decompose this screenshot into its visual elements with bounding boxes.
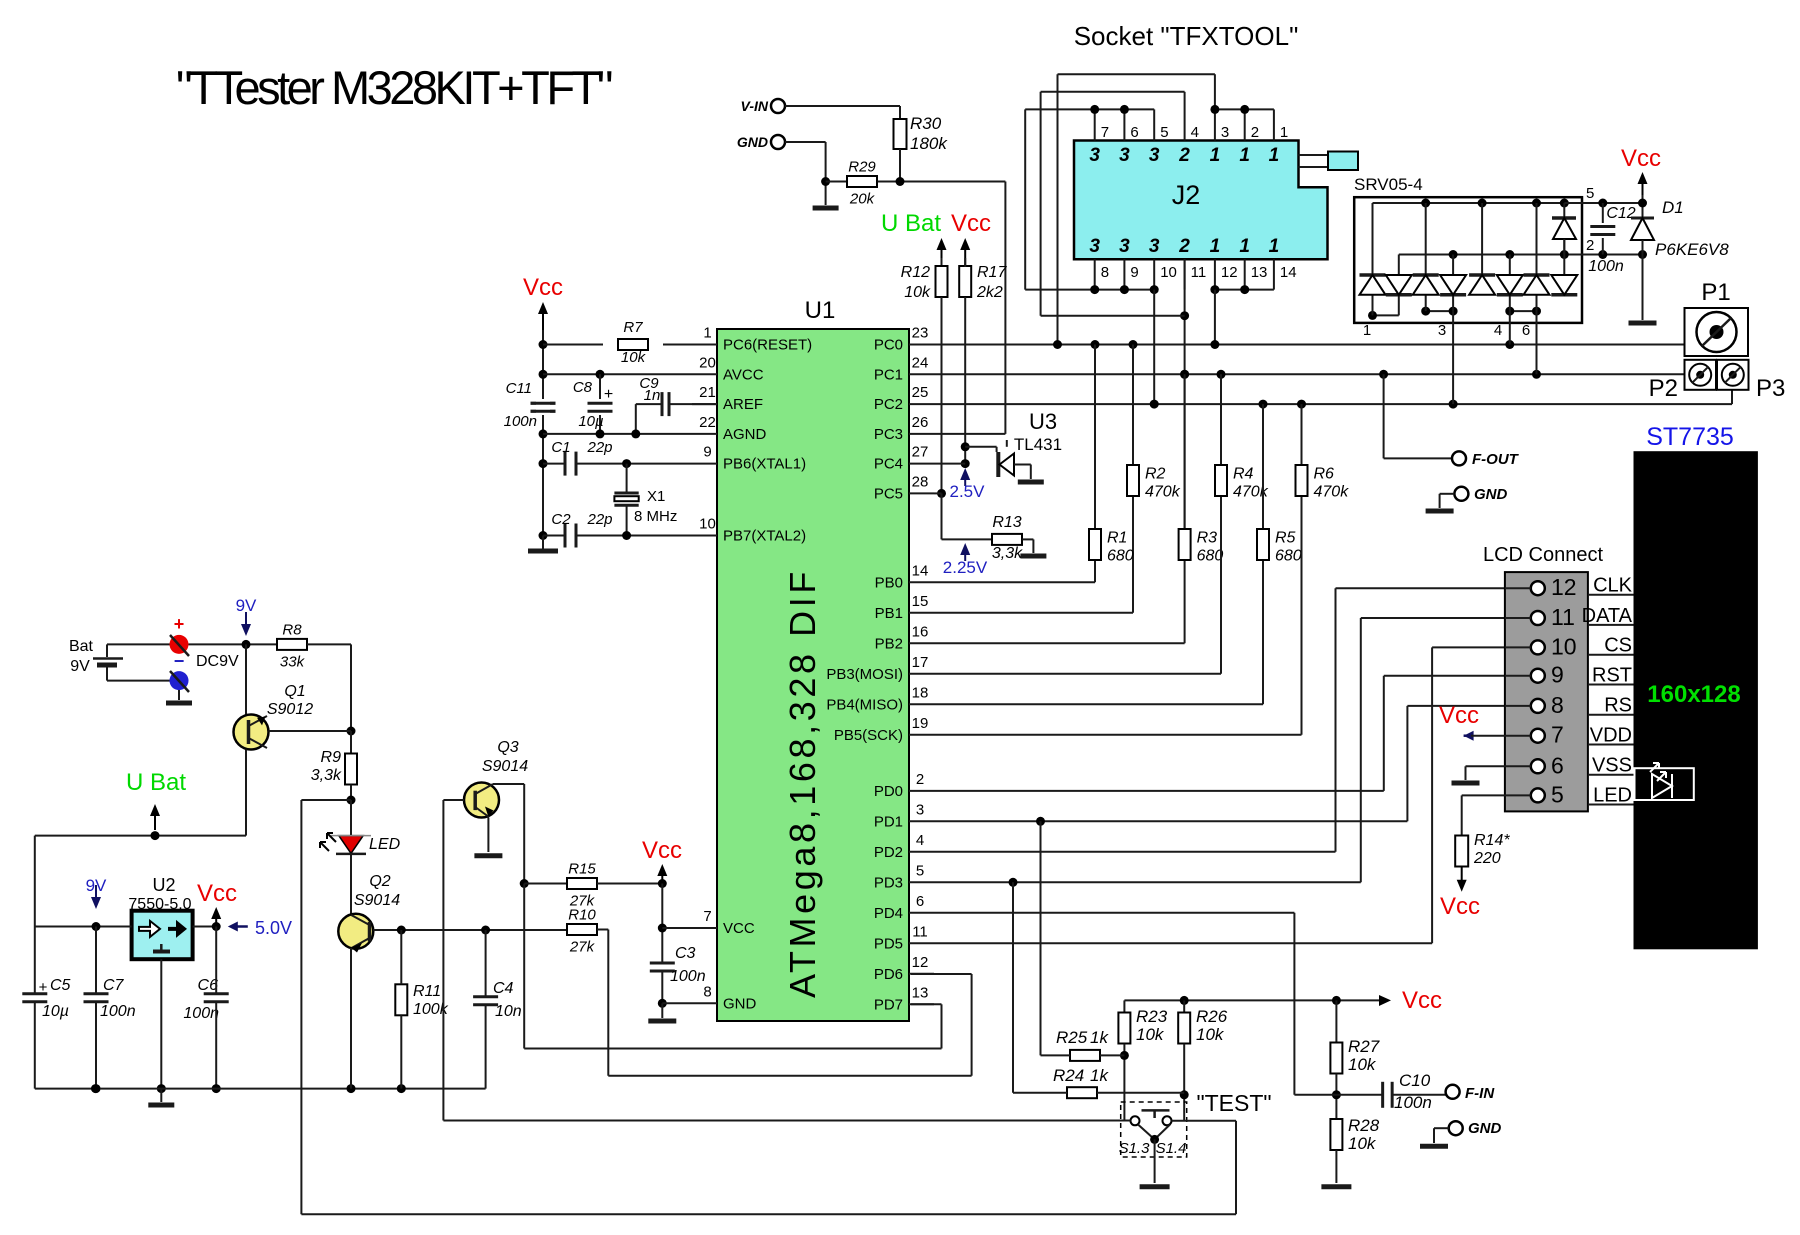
svg-text:P6KE6V8: P6KE6V8	[1655, 240, 1729, 259]
svg-text:PB2: PB2	[875, 635, 903, 652]
svg-text:5: 5	[1160, 124, 1168, 141]
svg-text:TL431: TL431	[1014, 435, 1062, 454]
svg-text:12: 12	[912, 954, 929, 971]
svg-text:GND: GND	[1474, 486, 1508, 503]
svg-text:16: 16	[912, 623, 929, 640]
svg-text:2: 2	[1251, 124, 1259, 141]
svg-text:9: 9	[703, 444, 711, 461]
svg-text:22: 22	[699, 414, 716, 431]
svg-text:AVCC: AVCC	[723, 366, 764, 383]
svg-text:18: 18	[912, 684, 929, 701]
svg-text:ATMega8,168,328 DIF: ATMega8,168,328 DIF	[782, 568, 823, 998]
svg-text:Vcc: Vcc	[197, 880, 237, 907]
svg-text:PB7(XTAL2): PB7(XTAL2)	[723, 528, 806, 545]
svg-text:PD7: PD7	[874, 996, 903, 1013]
svg-text:3: 3	[1149, 145, 1160, 166]
svg-text:AREF: AREF	[723, 396, 763, 413]
svg-text:1k: 1k	[1090, 1028, 1109, 1047]
svg-text:P1: P1	[1701, 279, 1730, 306]
svg-text:680: 680	[1275, 548, 1302, 565]
svg-text:10µ: 10µ	[42, 1003, 69, 1020]
svg-text:3: 3	[1149, 236, 1160, 257]
svg-text:R13: R13	[992, 514, 1021, 531]
svg-text:14: 14	[1280, 264, 1297, 281]
svg-text:1: 1	[1210, 236, 1221, 257]
svg-text:470k: 470k	[1314, 484, 1350, 501]
svg-text:R9: R9	[321, 749, 342, 766]
svg-text:12: 12	[1221, 264, 1238, 281]
svg-text:680: 680	[1107, 548, 1134, 565]
svg-text:11: 11	[1191, 264, 1207, 281]
svg-text:R1: R1	[1107, 530, 1127, 547]
svg-text:8: 8	[1101, 264, 1109, 281]
svg-text:X1: X1	[647, 488, 665, 505]
svg-text:1: 1	[1239, 236, 1250, 257]
svg-text:160x128: 160x128	[1647, 681, 1740, 708]
svg-text:U Bat: U Bat	[881, 210, 941, 237]
svg-text:2: 2	[1178, 236, 1190, 257]
svg-text:8 MHz: 8 MHz	[634, 508, 677, 525]
svg-text:7: 7	[703, 908, 711, 925]
svg-text:PD1: PD1	[874, 813, 903, 830]
svg-text:2: 2	[1586, 237, 1594, 254]
svg-text:10k: 10k	[1348, 1055, 1377, 1074]
svg-text:1: 1	[1239, 145, 1250, 166]
svg-text:RS: RS	[1604, 695, 1632, 717]
svg-text:GND: GND	[737, 134, 768, 150]
svg-text:R14*: R14*	[1474, 832, 1510, 849]
svg-text:22p: 22p	[586, 511, 612, 528]
svg-text:CS: CS	[1604, 635, 1632, 657]
svg-text:C1: C1	[551, 439, 570, 456]
svg-text:100n: 100n	[1588, 258, 1624, 275]
svg-text:13: 13	[912, 984, 929, 1001]
svg-text:+: +	[174, 614, 185, 634]
svg-text:F-IN: F-IN	[1465, 1085, 1495, 1102]
svg-text:11: 11	[912, 923, 928, 940]
svg-text:100n: 100n	[670, 968, 706, 985]
svg-text:Vcc: Vcc	[1621, 145, 1661, 172]
svg-text:10: 10	[1551, 633, 1577, 659]
svg-text:7: 7	[1101, 124, 1109, 141]
svg-text:−: −	[174, 651, 185, 671]
svg-text:20: 20	[699, 354, 716, 371]
svg-text:1n: 1n	[644, 387, 661, 404]
svg-text:R30: R30	[910, 114, 942, 133]
svg-text:3: 3	[1119, 145, 1130, 166]
svg-text:2: 2	[916, 771, 924, 788]
svg-text:21: 21	[699, 384, 716, 401]
svg-text:Vcc: Vcc	[642, 837, 682, 864]
svg-text:R15: R15	[568, 861, 596, 878]
svg-text:VSS: VSS	[1592, 755, 1632, 777]
svg-text:U2: U2	[152, 875, 175, 895]
svg-text:3,3k: 3,3k	[311, 767, 342, 784]
svg-text:24: 24	[912, 354, 929, 371]
svg-text:13: 13	[1251, 264, 1268, 281]
svg-text:Q1: Q1	[284, 683, 305, 700]
svg-text:2k2: 2k2	[976, 284, 1003, 301]
svg-text:R4: R4	[1233, 466, 1254, 483]
svg-text:17: 17	[912, 654, 929, 671]
svg-text:Vcc: Vcc	[523, 274, 563, 301]
svg-text:6: 6	[1522, 322, 1530, 339]
svg-text:S1.3: S1.3	[1119, 1140, 1151, 1157]
svg-text:Socket "TFXTOOL": Socket "TFXTOOL"	[1074, 21, 1299, 51]
svg-text:Vcc: Vcc	[1439, 702, 1479, 729]
svg-text:GND: GND	[723, 995, 757, 1012]
svg-text:PD6: PD6	[874, 966, 903, 983]
svg-text:19: 19	[912, 715, 929, 732]
svg-text:SRV05-4: SRV05-4	[1354, 175, 1423, 194]
svg-text:C11: C11	[506, 380, 532, 397]
svg-text:8: 8	[703, 983, 711, 1000]
svg-text:DC9V: DC9V	[196, 653, 239, 670]
svg-text:3: 3	[1119, 236, 1130, 257]
svg-text:28: 28	[912, 473, 929, 490]
svg-text:U3: U3	[1029, 409, 1057, 434]
svg-text:1: 1	[1280, 124, 1288, 141]
svg-text:5.0V: 5.0V	[255, 918, 292, 938]
svg-text:14: 14	[912, 562, 929, 579]
svg-text:R10: R10	[568, 907, 596, 924]
svg-text:LED: LED	[1593, 785, 1632, 807]
svg-text:AGND: AGND	[723, 426, 767, 443]
svg-text:R28: R28	[1348, 1116, 1380, 1135]
svg-text:3: 3	[1438, 322, 1446, 339]
svg-text:PD2: PD2	[874, 844, 903, 861]
svg-text:R3: R3	[1197, 530, 1218, 547]
svg-text:C10: C10	[1399, 1071, 1431, 1090]
svg-text:4: 4	[1494, 322, 1502, 339]
svg-text:10µ: 10µ	[578, 413, 603, 430]
svg-text:9: 9	[1130, 264, 1138, 281]
svg-text:1: 1	[1363, 322, 1371, 339]
svg-text:PB6(XTAL1): PB6(XTAL1)	[723, 456, 806, 473]
svg-text:10k: 10k	[1348, 1134, 1377, 1153]
svg-text:27: 27	[912, 444, 929, 461]
svg-text:S9012: S9012	[267, 701, 313, 718]
svg-text:R26: R26	[1196, 1007, 1228, 1026]
svg-text:VCC: VCC	[723, 920, 755, 937]
svg-text:R7: R7	[623, 319, 643, 336]
svg-text:C7: C7	[103, 977, 125, 994]
svg-text:R29: R29	[848, 159, 876, 176]
svg-text:9V: 9V	[70, 658, 90, 675]
svg-text:J2: J2	[1172, 180, 1201, 210]
svg-text:"TTester M328KIT+TFT": "TTester M328KIT+TFT"	[176, 61, 612, 114]
svg-text:+: +	[604, 386, 613, 403]
svg-text:GND: GND	[1468, 1120, 1502, 1137]
svg-text:1: 1	[703, 325, 711, 342]
svg-text:PB0: PB0	[875, 574, 903, 591]
svg-text:C6: C6	[198, 977, 219, 994]
svg-text:25: 25	[912, 384, 929, 401]
svg-text:LCD Connect: LCD Connect	[1483, 544, 1604, 566]
svg-text:R8: R8	[282, 621, 302, 638]
svg-text:680: 680	[1197, 548, 1224, 565]
svg-text:R23: R23	[1136, 1007, 1168, 1026]
svg-text:5: 5	[1586, 185, 1594, 202]
svg-text:P3: P3	[1756, 375, 1785, 402]
svg-text:10: 10	[1160, 264, 1177, 281]
svg-text:ST7735: ST7735	[1646, 423, 1734, 451]
svg-text:33k: 33k	[280, 653, 306, 670]
svg-text:PD3: PD3	[874, 874, 903, 891]
svg-text:Bat: Bat	[69, 638, 94, 655]
svg-text:2: 2	[1178, 145, 1190, 166]
svg-text:10k: 10k	[904, 284, 931, 301]
svg-text:U Bat: U Bat	[126, 769, 186, 796]
svg-text:3: 3	[916, 801, 924, 818]
svg-text:11: 11	[1551, 604, 1575, 630]
svg-text:C5: C5	[50, 977, 71, 994]
svg-text:Vcc: Vcc	[1402, 987, 1442, 1014]
svg-text:R24: R24	[1053, 1066, 1084, 1085]
svg-text:3,3k: 3,3k	[992, 545, 1023, 562]
svg-text:26: 26	[912, 414, 929, 431]
svg-text:"TEST": "TEST"	[1196, 1090, 1271, 1116]
svg-text:180k: 180k	[910, 134, 948, 153]
svg-text:Q3: Q3	[497, 739, 518, 756]
svg-text:6: 6	[1551, 752, 1564, 778]
svg-text:100n: 100n	[100, 1003, 136, 1020]
svg-text:3: 3	[1221, 124, 1229, 141]
svg-text:Vcc: Vcc	[951, 210, 991, 237]
svg-text:3: 3	[1089, 236, 1100, 257]
svg-text:20k: 20k	[849, 191, 876, 208]
svg-text:6: 6	[916, 893, 924, 910]
svg-text:PB3(MOSI): PB3(MOSI)	[826, 666, 903, 683]
svg-text:C2: C2	[551, 511, 571, 528]
svg-text:R17: R17	[977, 264, 1007, 281]
svg-text:PC3: PC3	[874, 426, 903, 443]
svg-text:PC2: PC2	[874, 396, 903, 413]
svg-text:PD5: PD5	[874, 935, 903, 952]
svg-text:+: +	[39, 979, 48, 996]
svg-text:C8: C8	[573, 379, 593, 396]
svg-text:1: 1	[1269, 145, 1280, 166]
svg-text:S1.4: S1.4	[1156, 1140, 1187, 1157]
svg-text:PB1: PB1	[875, 605, 903, 622]
svg-text:PC6(RESET): PC6(RESET)	[723, 337, 812, 354]
svg-text:10k: 10k	[1196, 1025, 1225, 1044]
svg-text:R25: R25	[1056, 1028, 1088, 1047]
svg-text:CLK: CLK	[1593, 575, 1633, 597]
svg-text:6: 6	[1130, 124, 1138, 141]
svg-text:Vcc: Vcc	[1440, 893, 1480, 920]
svg-text:V-IN: V-IN	[741, 98, 769, 114]
svg-text:4: 4	[916, 832, 924, 849]
svg-text:PC0: PC0	[874, 337, 903, 354]
svg-text:10n: 10n	[495, 1003, 522, 1020]
svg-text:R27: R27	[1348, 1037, 1380, 1056]
svg-text:1: 1	[1210, 145, 1221, 166]
svg-text:P2: P2	[1649, 375, 1678, 402]
svg-text:2.25V: 2.25V	[943, 558, 988, 577]
svg-text:10k: 10k	[1136, 1025, 1165, 1044]
svg-text:12: 12	[1551, 574, 1577, 600]
svg-text:R5: R5	[1275, 530, 1296, 547]
svg-text:5: 5	[916, 862, 924, 879]
svg-text:VDD: VDD	[1590, 725, 1632, 747]
svg-text:PD4: PD4	[874, 905, 903, 922]
svg-text:10k: 10k	[621, 349, 647, 366]
svg-text:PC5: PC5	[874, 485, 903, 502]
svg-text:R6: R6	[1314, 466, 1335, 483]
svg-text:5: 5	[1551, 781, 1564, 807]
svg-text:100n: 100n	[1394, 1093, 1432, 1112]
svg-text:C4: C4	[493, 980, 514, 997]
svg-text:27k: 27k	[569, 939, 596, 956]
svg-text:Q2: Q2	[369, 873, 390, 890]
svg-text:23: 23	[912, 325, 929, 342]
svg-text:220: 220	[1473, 850, 1501, 867]
svg-text:DATA: DATA	[1582, 605, 1633, 627]
svg-text:1k: 1k	[1090, 1066, 1109, 1085]
svg-text:LED: LED	[369, 836, 401, 853]
svg-text:PB4(MISO): PB4(MISO)	[826, 696, 903, 713]
svg-text:U1: U1	[805, 297, 836, 324]
svg-text:7: 7	[1551, 722, 1564, 748]
svg-text:R11: R11	[413, 983, 441, 1000]
svg-text:1: 1	[1269, 236, 1280, 257]
svg-text:3: 3	[1089, 145, 1100, 166]
svg-text:470k: 470k	[1145, 484, 1181, 501]
svg-text:RST: RST	[1592, 665, 1632, 687]
svg-text:R12: R12	[901, 264, 930, 281]
svg-text:2.5V: 2.5V	[950, 482, 986, 501]
svg-text:10: 10	[699, 516, 716, 533]
svg-text:9: 9	[1551, 662, 1564, 688]
svg-text:PB5(SCK): PB5(SCK)	[834, 727, 903, 744]
svg-text:PC1: PC1	[874, 366, 903, 383]
svg-text:F-OUT: F-OUT	[1472, 451, 1520, 468]
svg-text:100n: 100n	[183, 1005, 219, 1022]
svg-text:PD0: PD0	[874, 783, 903, 800]
svg-text:100n: 100n	[504, 413, 537, 430]
svg-text:PC4: PC4	[874, 456, 903, 473]
svg-text:D1: D1	[1662, 198, 1684, 217]
svg-text:4: 4	[1191, 124, 1199, 141]
svg-text:8: 8	[1551, 692, 1564, 718]
svg-text:R2: R2	[1145, 466, 1166, 483]
svg-text:22p: 22p	[586, 439, 612, 456]
svg-text:15: 15	[912, 593, 929, 610]
svg-text:C3: C3	[675, 945, 696, 962]
svg-text:S9014: S9014	[482, 758, 528, 775]
svg-text:S9014: S9014	[354, 892, 400, 909]
